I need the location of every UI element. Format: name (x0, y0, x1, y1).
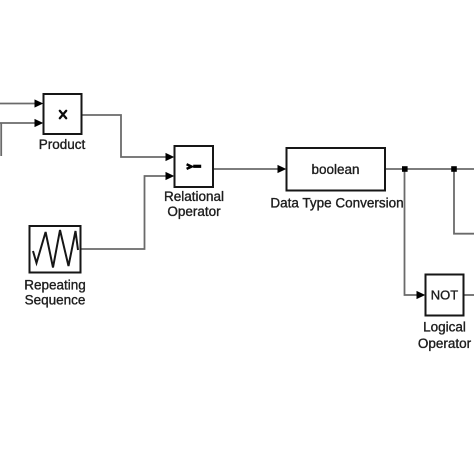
svg-text:Operator: Operator (418, 336, 472, 351)
svg-text:Data Type Conversion: Data Type Conversion (270, 196, 403, 211)
svg-text:Logical: Logical (423, 320, 466, 335)
svg-text:Product: Product (39, 137, 86, 152)
svg-text:Relational: Relational (164, 189, 224, 204)
svg-text:boolean: boolean (311, 162, 359, 177)
svg-text:Sequence: Sequence (25, 293, 86, 308)
svg-text:Repeating: Repeating (24, 278, 86, 293)
svg-text:NOT: NOT (431, 288, 459, 303)
svg-text:Operator: Operator (167, 204, 221, 219)
